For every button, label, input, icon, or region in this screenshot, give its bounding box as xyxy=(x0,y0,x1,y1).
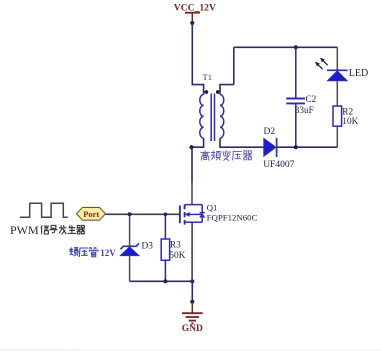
svg-text:C2: C2 xyxy=(306,94,317,104)
svg-text:GND: GND xyxy=(182,324,203,334)
svg-text:12V: 12V xyxy=(100,248,116,258)
svg-text:FQPF12N60C: FQPF12N60C xyxy=(207,212,258,222)
svg-text:Q1: Q1 xyxy=(207,203,218,213)
svg-text:R3: R3 xyxy=(170,240,181,250)
svg-text:50K: 50K xyxy=(169,251,185,261)
svg-text:D2: D2 xyxy=(264,127,276,137)
svg-text:33uF: 33uF xyxy=(295,105,314,115)
svg-text:UF4007: UF4007 xyxy=(263,160,294,170)
svg-text:VCC_12V: VCC_12V xyxy=(174,3,216,14)
svg-text:D3: D3 xyxy=(142,241,154,251)
svg-text:PWM: PWM xyxy=(10,223,39,237)
svg-text:LED: LED xyxy=(349,68,368,79)
svg-text:10K: 10K xyxy=(342,117,358,127)
svg-text:Port: Port xyxy=(83,209,99,219)
svg-text:T1: T1 xyxy=(203,72,212,82)
